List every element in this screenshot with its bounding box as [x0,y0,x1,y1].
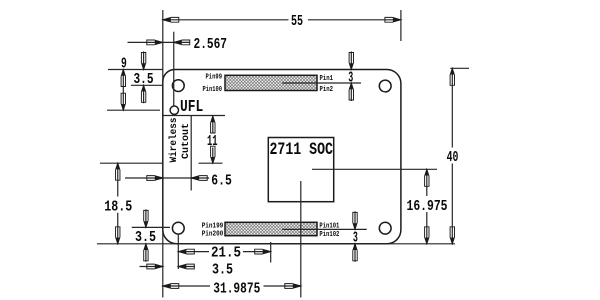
svg-text:Pin100: Pin100 [203,86,223,94]
svg-text:3: 3 [348,71,353,87]
svg-text:Pin2: Pin2 [320,86,334,94]
svg-text:Pin199: Pin199 [202,223,224,231]
svg-text:Pin200: Pin200 [202,231,224,239]
svg-text:9: 9 [121,56,127,72]
svg-text:3.5: 3.5 [212,263,233,279]
svg-text:Wireless: Wireless [168,118,180,163]
svg-text:40: 40 [447,150,459,166]
svg-text:2711 SOC: 2711 SOC [270,140,334,160]
svg-text:Pin1: Pin1 [320,75,334,83]
svg-text:2.567: 2.567 [194,37,228,53]
svg-text:UFL: UFL [180,98,203,117]
svg-text:3: 3 [353,230,358,246]
svg-text:55: 55 [291,14,303,30]
svg-text:16.975: 16.975 [407,199,448,215]
svg-text:Pin99: Pin99 [206,74,223,82]
svg-text:11: 11 [207,134,218,150]
svg-text:3.5: 3.5 [134,72,154,88]
svg-text:Pin101: Pin101 [319,223,339,231]
svg-text:21.5: 21.5 [211,245,241,261]
svg-text:3.5: 3.5 [135,230,156,246]
svg-text:31.9875: 31.9875 [213,282,260,298]
svg-text:18.5: 18.5 [104,199,132,215]
svg-text:Pin102: Pin102 [319,231,339,239]
svg-text:6.5: 6.5 [211,173,232,189]
svg-text:Cutout: Cutout [180,123,192,159]
